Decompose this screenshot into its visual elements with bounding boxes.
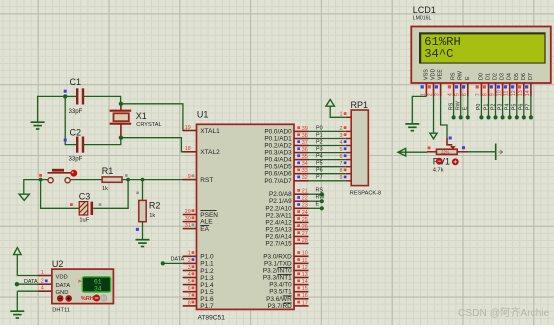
svg-text:24: 24 — [302, 210, 308, 216]
svg-text:P3: P3 — [497, 104, 503, 111]
svg-text:15: 15 — [302, 286, 308, 292]
svg-text:39: 39 — [302, 126, 308, 132]
svg-text:AT89C51: AT89C51 — [198, 315, 226, 322]
svg-text:P2: P2 — [316, 139, 323, 145]
svg-text:P0.0/AD0: P0.0/AD0 — [264, 128, 292, 135]
svg-text:1k: 1k — [149, 213, 155, 219]
svg-text:P0.1/AD1: P0.1/AD1 — [264, 136, 292, 143]
svg-text:D5: D5 — [514, 73, 520, 80]
svg-text:P1.4: P1.4 — [200, 282, 214, 289]
svg-text:C1: C1 — [70, 77, 82, 87]
svg-text:23: 23 — [302, 203, 308, 209]
svg-text:P3.3/INT1: P3.3/INT1 — [263, 275, 292, 282]
svg-text:LM016L: LM016L — [413, 15, 432, 21]
svg-text:11: 11 — [302, 258, 308, 264]
svg-text:3: 3 — [340, 133, 343, 139]
svg-text:P3.5/T1: P3.5/T1 — [269, 289, 292, 296]
svg-text:D0: D0 — [478, 73, 484, 80]
svg-text:12: 12 — [511, 90, 517, 96]
svg-text:P3: P3 — [316, 147, 323, 153]
svg-text:33pF: 33pF — [69, 156, 83, 163]
svg-text:RST: RST — [200, 177, 213, 184]
svg-text:1: 1 — [340, 112, 343, 118]
svg-text:DHT11: DHT11 — [52, 308, 70, 314]
svg-text:R2: R2 — [149, 200, 161, 210]
svg-text:P0.7/AD7: P0.7/AD7 — [264, 178, 292, 185]
svg-text:2: 2 — [41, 279, 44, 285]
svg-text:D1: D1 — [486, 73, 492, 80]
svg-text:1: 1 — [41, 270, 44, 276]
svg-text:P2.0/A8: P2.0/A8 — [269, 191, 292, 198]
svg-text:P2.2/A10: P2.2/A10 — [265, 205, 292, 212]
svg-text:1: 1 — [188, 251, 191, 257]
svg-text:3: 3 — [435, 93, 441, 96]
svg-text:P2.4/A12: P2.4/A12 — [265, 219, 292, 226]
svg-text:D3: D3 — [500, 73, 506, 80]
svg-text:P0.2/AD2: P0.2/AD2 — [264, 143, 292, 150]
svg-text:P0.4/AD4: P0.4/AD4 — [264, 157, 292, 164]
svg-text:U1: U1 — [197, 109, 209, 119]
svg-text:RS: RS — [316, 188, 324, 194]
svg-text:P5: P5 — [512, 104, 518, 111]
svg-text:7: 7 — [188, 293, 191, 299]
svg-text:29: 29 — [185, 209, 191, 215]
svg-text:34: 34 — [94, 285, 102, 292]
svg-text:5: 5 — [455, 93, 461, 96]
svg-text:P4: P4 — [505, 104, 511, 111]
svg-text:E: E — [465, 76, 471, 80]
svg-text:26: 26 — [302, 224, 308, 230]
svg-text:8: 8 — [188, 300, 191, 306]
svg-text:32: 32 — [302, 175, 308, 181]
svg-text:7: 7 — [340, 161, 343, 167]
svg-text:19: 19 — [185, 125, 191, 131]
svg-text:VEE: VEE — [438, 69, 444, 80]
svg-text:R1: R1 — [102, 166, 114, 176]
svg-text:ALE: ALE — [200, 219, 213, 226]
svg-text:%RH: %RH — [81, 296, 94, 302]
svg-text:13: 13 — [518, 90, 524, 96]
svg-text:RP1: RP1 — [351, 100, 369, 110]
svg-text:XTAL2: XTAL2 — [200, 149, 220, 156]
svg-text:P1: P1 — [316, 132, 323, 138]
svg-text:P0.3/AD3: P0.3/AD3 — [264, 150, 292, 157]
svg-text:8: 8 — [483, 93, 489, 96]
svg-text:16: 16 — [302, 293, 308, 299]
svg-text:6: 6 — [340, 154, 343, 160]
svg-text:25: 25 — [302, 217, 308, 223]
svg-text:3: 3 — [188, 265, 191, 271]
svg-text:4: 4 — [448, 93, 454, 96]
svg-text:D6: D6 — [521, 73, 527, 80]
svg-text:5: 5 — [188, 279, 191, 285]
svg-text:P2.7/A15: P2.7/A15 — [265, 241, 292, 248]
svg-text:P2: P2 — [490, 104, 496, 111]
svg-text:P3.0/RXD: P3.0/RXD — [263, 253, 292, 260]
svg-text:P1.6: P1.6 — [200, 296, 214, 303]
svg-text:RW: RW — [458, 70, 464, 80]
svg-text:9: 9 — [490, 93, 496, 96]
svg-text:4: 4 — [340, 140, 343, 146]
svg-text:31: 31 — [185, 223, 191, 229]
svg-text:21: 21 — [302, 189, 308, 195]
svg-text:P1.3: P1.3 — [200, 275, 214, 282]
svg-text:1uF: 1uF — [79, 218, 89, 224]
svg-text:61: 61 — [94, 278, 102, 285]
svg-text:P0.6/AD6: P0.6/AD6 — [264, 171, 292, 178]
svg-text:34^C: 34^C — [424, 47, 453, 61]
svg-text:E: E — [463, 106, 469, 110]
svg-text:10: 10 — [302, 251, 308, 257]
svg-text:37: 37 — [302, 140, 308, 146]
svg-text:C2: C2 — [70, 128, 82, 138]
svg-text:P1: P1 — [483, 104, 489, 111]
svg-text:P1.5: P1.5 — [200, 289, 214, 296]
svg-text:GND: GND — [56, 290, 69, 296]
svg-text:P6: P6 — [519, 104, 525, 111]
svg-text:10: 10 — [497, 90, 503, 96]
svg-text:P2.1/A9: P2.1/A9 — [269, 198, 292, 205]
svg-text:RW: RW — [456, 100, 462, 110]
svg-text:14: 14 — [302, 279, 308, 285]
svg-text:P2.5/A13: P2.5/A13 — [265, 226, 292, 233]
svg-text:9: 9 — [340, 175, 343, 181]
svg-text:DATA: DATA — [171, 257, 185, 263]
svg-text:P0.5/AD5: P0.5/AD5 — [264, 164, 292, 171]
svg-text:11: 11 — [504, 91, 510, 97]
svg-text:30: 30 — [185, 216, 191, 222]
svg-text:27: 27 — [302, 231, 308, 237]
svg-text:P5: P5 — [316, 161, 323, 167]
svg-text:6: 6 — [462, 93, 468, 96]
svg-text:P3.7/RD: P3.7/RD — [268, 303, 293, 310]
svg-text:6: 6 — [188, 286, 191, 292]
svg-text:P0: P0 — [316, 125, 323, 131]
svg-text:CRYSTAL: CRYSTAL — [136, 122, 161, 128]
svg-text:4: 4 — [41, 286, 44, 292]
svg-text:DATA: DATA — [24, 279, 38, 285]
svg-text:P4: P4 — [316, 154, 323, 160]
svg-text:P1.2: P1.2 — [200, 268, 214, 275]
svg-text:D7: D7 — [528, 73, 534, 80]
svg-text:33pF: 33pF — [69, 108, 83, 115]
svg-text:2: 2 — [188, 258, 191, 264]
svg-text:14: 14 — [525, 90, 531, 96]
svg-text:P2.3/A11: P2.3/A11 — [266, 212, 292, 219]
svg-text:4.7k: 4.7k — [433, 168, 444, 174]
svg-text:VDD: VDD — [56, 274, 68, 280]
svg-text:LCD1: LCD1 — [413, 5, 436, 15]
svg-text:P7: P7 — [316, 175, 323, 181]
svg-text:RS: RS — [451, 72, 457, 80]
svg-text:17: 17 — [302, 300, 308, 306]
svg-text:P3.2/INT0: P3.2/INT0 — [263, 268, 292, 275]
svg-text:DATA: DATA — [56, 283, 71, 289]
svg-text:28: 28 — [302, 238, 308, 244]
svg-text:RESPACK-8: RESPACK-8 — [350, 190, 381, 196]
svg-text:P3.1/TXD: P3.1/TXD — [264, 260, 292, 267]
svg-text:33: 33 — [302, 168, 308, 174]
svg-text:P6: P6 — [316, 168, 323, 174]
svg-text:13: 13 — [302, 272, 308, 278]
svg-text:EA: EA — [200, 226, 209, 233]
svg-text:D4: D4 — [507, 73, 513, 80]
svg-text:8: 8 — [340, 168, 343, 174]
svg-text:22: 22 — [302, 196, 308, 202]
svg-text:E: E — [316, 202, 320, 208]
svg-text:35: 35 — [302, 154, 308, 160]
svg-text:34: 34 — [302, 161, 308, 167]
svg-text:P3.6/WR: P3.6/WR — [266, 296, 292, 303]
svg-text:36: 36 — [302, 147, 308, 153]
svg-text:C3: C3 — [79, 191, 91, 201]
svg-text:P1.7: P1.7 — [200, 303, 214, 310]
svg-text:2: 2 — [428, 93, 434, 96]
svg-text:P3.4/T0: P3.4/T0 — [269, 282, 292, 289]
svg-text:18: 18 — [185, 146, 191, 152]
svg-text:1k: 1k — [102, 186, 108, 192]
svg-text:VSS: VSS — [423, 69, 429, 80]
svg-text:5: 5 — [340, 147, 343, 153]
svg-text:XTAL1: XTAL1 — [200, 128, 220, 135]
svg-text:12: 12 — [302, 265, 308, 271]
svg-text:2: 2 — [340, 126, 343, 132]
svg-text:22%: 22% — [441, 150, 450, 155]
svg-text:P1.1: P1.1 — [200, 261, 214, 268]
svg-text:P7: P7 — [526, 104, 532, 111]
svg-text:P1.0: P1.0 — [200, 254, 214, 261]
svg-text:P2.6/A14: P2.6/A14 — [265, 234, 292, 241]
svg-text:X1: X1 — [136, 111, 147, 121]
svg-text:D2: D2 — [493, 73, 499, 80]
svg-text:VDD: VDD — [431, 69, 437, 80]
svg-text:RS: RS — [448, 102, 454, 110]
svg-text:7: 7 — [475, 93, 481, 96]
svg-text:RW: RW — [316, 195, 326, 201]
svg-text:CSDN @阿齐Archie: CSDN @阿齐Archie — [458, 306, 550, 319]
svg-text:38: 38 — [302, 133, 308, 139]
svg-text:U2: U2 — [52, 259, 64, 269]
svg-text:P0: P0 — [476, 104, 482, 111]
svg-text:9: 9 — [188, 174, 191, 180]
svg-text:4: 4 — [188, 272, 191, 278]
